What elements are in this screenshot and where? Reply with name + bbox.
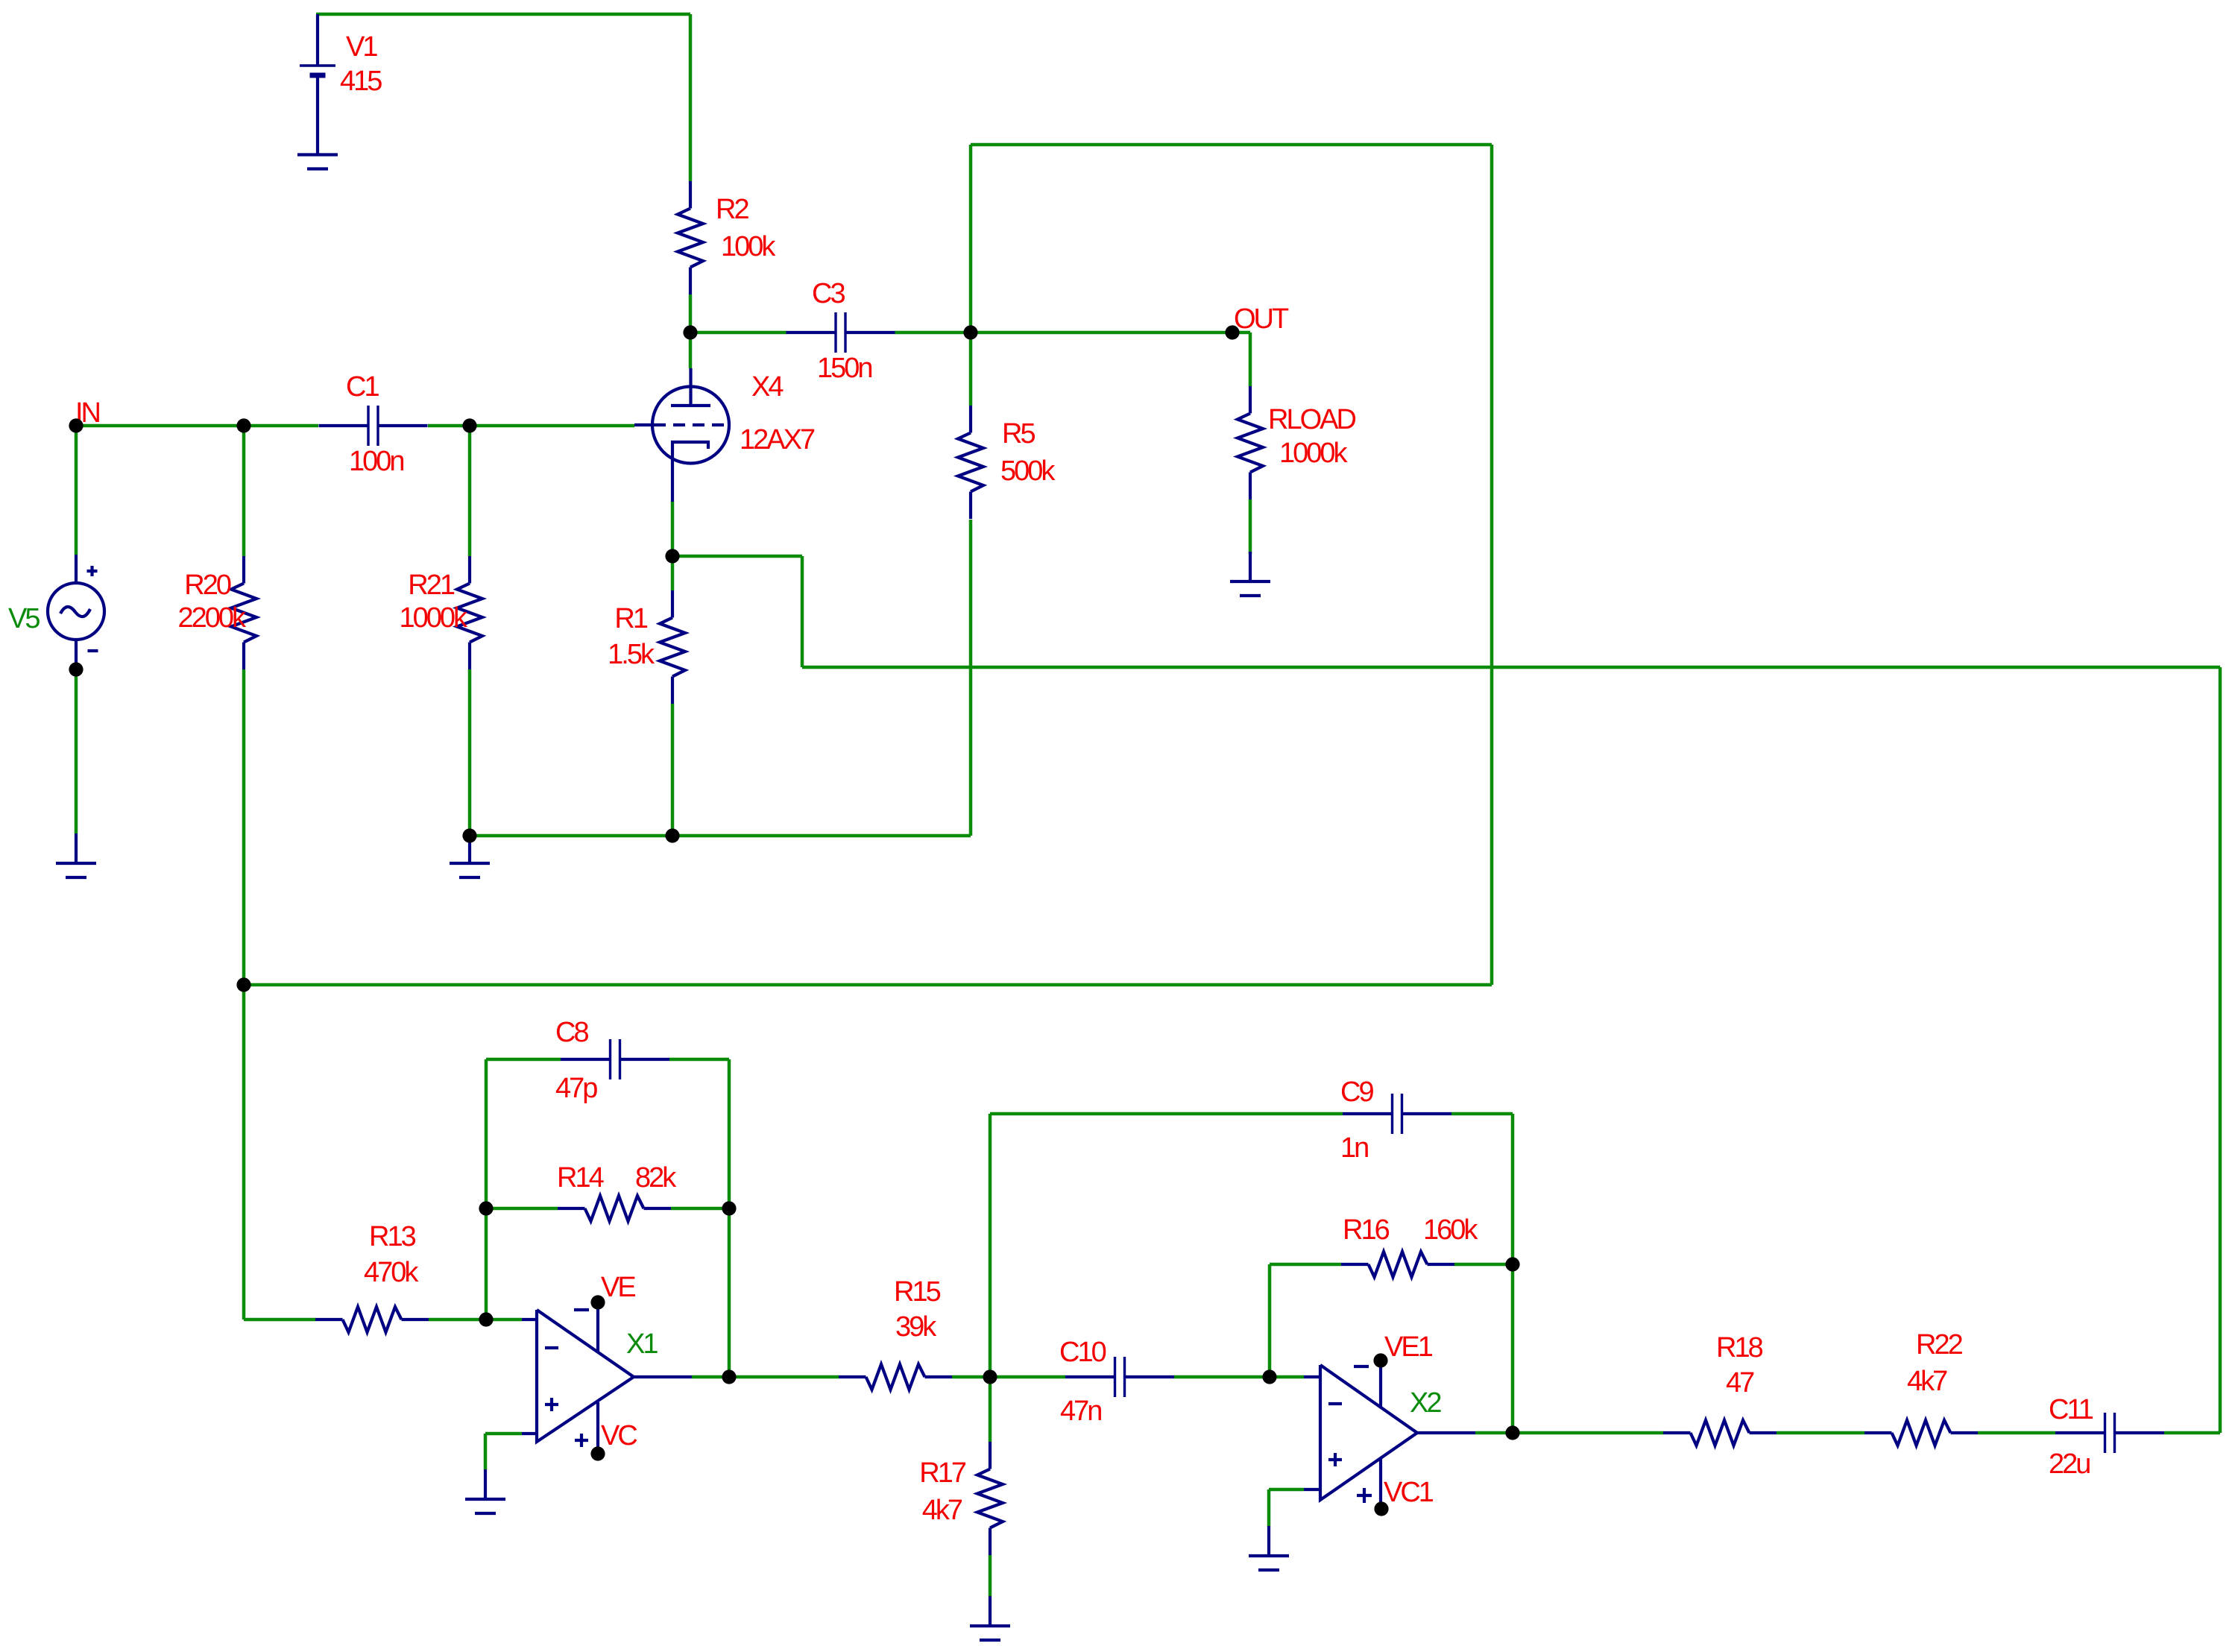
triode X4	[634, 368, 729, 502]
resistor R16	[1341, 1252, 1454, 1277]
svg-text:1000k: 1000k	[399, 602, 468, 634]
wire R21 node to tube grid	[470, 424, 634, 428]
wire R20 top	[242, 426, 246, 556]
svg-text:500k: 500k	[1000, 455, 1056, 487]
svg-text:C11: C11	[2049, 1394, 2093, 1425]
resistor R2	[678, 181, 703, 294]
wire R20 bottom to R13 row	[242, 669, 246, 1320]
resistor R20	[231, 556, 256, 669]
wire R14 left	[486, 1207, 558, 1211]
svg-text:R21: R21	[408, 570, 455, 601]
wire C8 left	[486, 1058, 561, 1062]
wire node to OUT	[971, 331, 1232, 335]
wire top loop horizontal	[971, 143, 1492, 147]
wire OUT to RLOAD corner	[1232, 331, 1250, 335]
wire R5 bottom to bottom row	[969, 520, 973, 836]
junction cathode	[665, 549, 679, 563]
wire R13 row left	[244, 1318, 315, 1322]
svg-text:VE1: VE1	[1384, 1331, 1433, 1363]
wire X1 feedback vertical	[485, 1059, 488, 1320]
junction X2 minus	[1262, 1369, 1276, 1384]
op-amp X2	[1304, 1361, 1475, 1509]
junction X2 out	[1505, 1425, 1519, 1440]
resistor R13	[315, 1307, 429, 1332]
junction R1 bottom	[665, 828, 679, 842]
svg-text:470k: 470k	[364, 1257, 419, 1288]
ground R17	[970, 1596, 1010, 1640]
capacitor C11	[2055, 1413, 2164, 1453]
pin dot VE1	[1373, 1353, 1387, 1367]
svg-text:R5: R5	[1002, 418, 1035, 450]
wire right column C9 to X2 out	[1511, 1114, 1515, 1433]
resistor R1	[660, 590, 685, 704]
resistor R21	[457, 556, 482, 669]
wire C3 to node	[895, 331, 971, 335]
wire mid node to C10	[990, 1375, 1065, 1379]
svg-text:47: 47	[1726, 1367, 1754, 1399]
svg-text:47n: 47n	[1060, 1396, 1101, 1427]
wire R17 to ground	[989, 1555, 992, 1596]
wire X2 plus to ground	[1267, 1489, 1271, 1526]
junction X1 minus	[479, 1312, 493, 1326]
wire bottom node row	[470, 834, 971, 838]
junction IN	[69, 418, 83, 432]
wire R13 to X1 minus node	[429, 1318, 486, 1322]
wire R15 to mid node	[952, 1375, 990, 1379]
svg-text:RLOAD: RLOAD	[1268, 404, 1355, 435]
wire X2 minus node to op-amp	[1270, 1375, 1304, 1379]
svg-text:82k: 82k	[635, 1162, 677, 1194]
svg-text:2200k: 2200k	[177, 602, 247, 634]
wire bottom loop horizontal	[244, 983, 1492, 987]
svg-text:VC: VC	[601, 1420, 637, 1451]
wire R2 bottom to anode node and tube plate	[689, 294, 693, 368]
wire mid node up to C9 row	[989, 1114, 992, 1377]
svg-text:R14: R14	[557, 1162, 605, 1194]
svg-text:4k7: 4k7	[922, 1495, 962, 1526]
junction anode	[683, 325, 697, 339]
svg-text:C1: C1	[346, 371, 379, 403]
wire R21 bottom	[468, 669, 472, 836]
wire C10 to X2 minus node	[1174, 1375, 1270, 1379]
svg-text:C3: C3	[812, 278, 845, 309]
junction loop left	[236, 977, 250, 991]
resistor R18	[1663, 1420, 1777, 1445]
svg-text:VC1: VC1	[1384, 1477, 1434, 1508]
junction R14 left	[479, 1201, 493, 1215]
junction X1 out	[722, 1369, 736, 1384]
wire C8 right	[669, 1058, 729, 1062]
wire X1 right feedback vertical	[728, 1059, 731, 1377]
svg-text:415: 415	[340, 66, 382, 97]
resistor R22	[1864, 1420, 1978, 1445]
svg-text:1000k: 1000k	[1279, 438, 1349, 469]
voltage source V1	[300, 14, 335, 154]
capacitor C9	[1343, 1094, 1451, 1134]
wire X1 plus to ground	[484, 1434, 488, 1469]
svg-text:150n: 150n	[817, 353, 871, 384]
wire long feedback row	[802, 666, 2220, 669]
resistor R14	[558, 1196, 671, 1221]
resistor R5	[958, 406, 983, 519]
svg-text:OUT: OUT	[1234, 303, 1289, 335]
svg-text:R13: R13	[369, 1221, 416, 1252]
wire cathode node to right	[672, 555, 802, 558]
svg-text:R16: R16	[1343, 1214, 1390, 1246]
svg-text:100k: 100k	[721, 231, 776, 262]
svg-text:R17: R17	[919, 1457, 966, 1489]
svg-text:1.5k: 1.5k	[608, 639, 655, 670]
svg-text:47p: 47p	[555, 1073, 597, 1104]
junction V5 minus	[69, 662, 83, 676]
wire IN down to V5	[75, 426, 78, 555]
svg-text:C8: C8	[555, 1017, 588, 1048]
junction R14 right	[722, 1201, 736, 1215]
wire R16 row left	[1270, 1263, 1341, 1267]
wire node up to top loop	[969, 145, 973, 332]
wire X1 minus node to op-amp	[486, 1318, 522, 1322]
wire anode node to C3	[690, 331, 786, 335]
svg-text:R18: R18	[1716, 1332, 1763, 1363]
svg-text:R22: R22	[1916, 1329, 1963, 1361]
wire node to R5 top	[969, 332, 973, 406]
svg-text:R20: R20	[184, 570, 231, 601]
ground V5	[56, 833, 96, 877]
wire V1 top to R2 column	[316, 13, 690, 16]
svg-text:X4: X4	[751, 371, 784, 403]
svg-text:C9: C9	[1340, 1076, 1373, 1108]
wire down to RLOAD	[1249, 332, 1252, 386]
svg-text:12AX7: 12AX7	[740, 424, 815, 455]
capacitor C1	[319, 406, 428, 446]
wire cathode to node	[671, 502, 675, 556]
wire R18 to R22	[1777, 1431, 1864, 1435]
junction C3 right	[963, 325, 977, 339]
wire C9 row right	[1451, 1112, 1513, 1116]
svg-text:39k: 39k	[895, 1311, 937, 1343]
junction R20 top	[236, 418, 250, 432]
svg-text:R2: R2	[716, 194, 748, 225]
wire X2 out to R18	[1475, 1431, 1663, 1435]
pin dot VE	[590, 1295, 605, 1309]
wire RLOAD to ground	[1249, 499, 1252, 554]
wire node to R1	[671, 556, 675, 590]
resistor R17	[977, 1442, 1003, 1555]
svg-text:X2: X2	[1410, 1387, 1441, 1419]
wire C9 row left	[990, 1112, 1343, 1116]
ground RLOAD	[1230, 552, 1270, 596]
svg-text:R15: R15	[894, 1276, 941, 1308]
voltage source V5	[48, 555, 104, 668]
pin dot VC1	[1374, 1501, 1388, 1516]
svg-text:1n: 1n	[1340, 1132, 1368, 1164]
svg-text:C10: C10	[1059, 1337, 1106, 1368]
svg-text:160k: 160k	[1423, 1214, 1478, 1246]
svg-text:100n: 100n	[349, 446, 403, 477]
ground V1	[297, 155, 338, 169]
wire C11 to right edge	[2164, 1431, 2220, 1435]
junction R16 right	[1505, 1257, 1519, 1271]
wire R22 to C11	[1978, 1431, 2055, 1435]
wire X2 plus input	[1269, 1488, 1304, 1492]
svg-text:V1: V1	[346, 31, 377, 63]
resistor RLOAD	[1238, 386, 1263, 499]
wire X1 plus input	[485, 1432, 522, 1436]
capacitor C8	[561, 1039, 669, 1079]
wire down to R2	[689, 14, 693, 181]
wire R16 left vertical	[1268, 1264, 1272, 1377]
wire V5 to ground	[75, 669, 78, 833]
svg-text:X1: X1	[626, 1328, 658, 1360]
svg-text:VE: VE	[601, 1272, 635, 1303]
svg-text:4k7: 4k7	[1907, 1366, 1947, 1397]
wire X1 out to R15	[692, 1375, 839, 1379]
capacitor C3	[786, 312, 895, 353]
wire IN row left	[76, 424, 318, 428]
junction mid node	[983, 1369, 997, 1384]
junction R21 top	[462, 418, 476, 432]
ground R21	[450, 833, 490, 877]
wire down to long feedback row	[801, 556, 804, 667]
ground X1	[465, 1469, 505, 1513]
capacitor C10	[1065, 1357, 1174, 1397]
pin dot VC	[590, 1446, 605, 1460]
wire C1 to R21 node	[428, 424, 470, 428]
wire right loop vertical	[1490, 145, 1494, 985]
wire R21 top	[468, 426, 472, 556]
svg-text:V5: V5	[8, 603, 40, 634]
wire R16 row right	[1454, 1263, 1513, 1267]
wire mid node down to R17	[989, 1377, 992, 1442]
junction R21 bottom	[462, 828, 476, 842]
junction OUT	[1225, 325, 1239, 339]
svg-text:R1: R1	[614, 603, 647, 634]
ground X2	[1249, 1526, 1289, 1570]
wire right edge vertical	[2219, 667, 2222, 1433]
wire R14 right	[671, 1207, 729, 1211]
wire R1 bottom	[671, 704, 675, 836]
svg-text:22u: 22u	[2049, 1448, 2090, 1480]
resistor R15	[839, 1364, 952, 1390]
op-amp X1	[522, 1302, 692, 1454]
